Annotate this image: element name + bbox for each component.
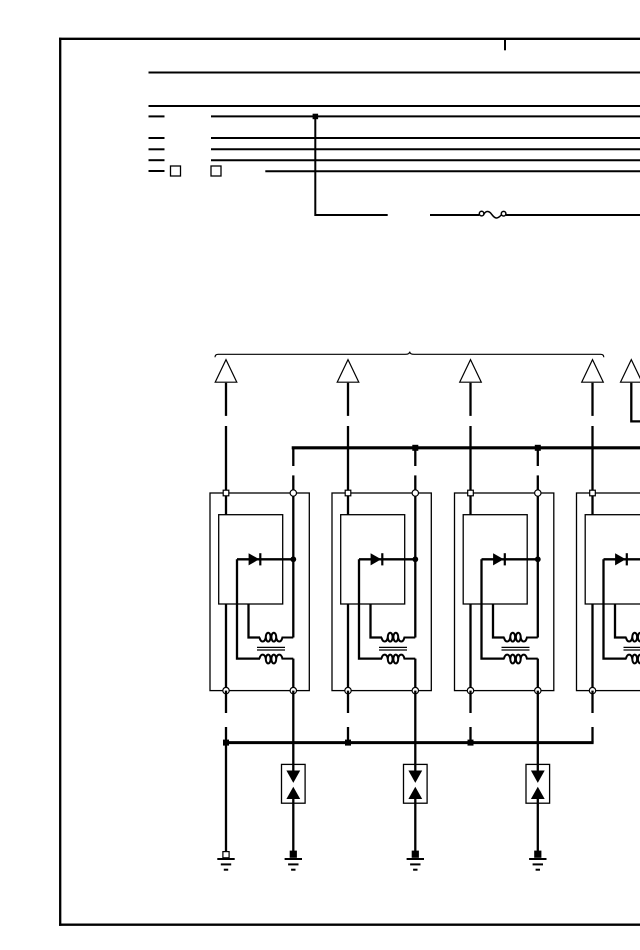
primary winding unit 2 xyxy=(382,633,416,642)
igniter unit 1 xyxy=(219,515,283,604)
diode D3 xyxy=(482,553,538,565)
pin unit 3 terminal 2 xyxy=(535,490,541,496)
wire pin4 to spark plug 3 xyxy=(537,691,539,771)
wire arrow 4 upper segment xyxy=(591,383,593,416)
wire unit 3 secondary to pin4 xyxy=(537,659,539,691)
inductor noise suppressor coil xyxy=(479,211,506,218)
igniter unit 4 xyxy=(585,515,640,604)
wire unit 1 pin2 down xyxy=(292,493,294,638)
pin unit 1 terminal 4 xyxy=(290,687,296,693)
secondary winding unit 1 xyxy=(260,655,294,664)
connector arrow 2 xyxy=(337,360,359,383)
secondary winding unit 2 xyxy=(382,655,416,664)
primary winding unit 4 xyxy=(626,633,640,642)
transformer core unit 3 xyxy=(502,647,530,650)
wire unit 2 pin1 to igniter xyxy=(347,493,349,515)
pin unit 1 terminal 2 xyxy=(290,490,296,496)
wire unit 1 pin1 to igniter xyxy=(225,493,227,515)
wire bus left drop lower xyxy=(292,475,294,493)
wire bus drop 1 lower xyxy=(414,475,416,493)
wire drop from row 3 xyxy=(315,116,387,215)
ground G4 xyxy=(529,851,546,870)
spark plug 3 xyxy=(526,764,550,803)
wire row 7 stub xyxy=(149,170,165,172)
spark plug 2 xyxy=(404,764,428,803)
node row3 junction xyxy=(313,114,319,120)
connector arrow 1 xyxy=(215,360,237,383)
wire arrow 3 lower segment xyxy=(469,426,471,493)
ground G1 xyxy=(217,859,234,870)
pin unit 3 terminal 3 xyxy=(467,687,473,693)
wire unit 3 igniter to pin3 xyxy=(469,604,471,691)
brace (harness group) xyxy=(215,352,604,358)
wire unit 1 secondary to pin4 xyxy=(292,659,294,691)
connector arrow 4 xyxy=(582,360,604,383)
node bus junction 2 xyxy=(535,445,541,451)
wire unit 2 pin3 drop lower xyxy=(347,727,349,743)
wire arrow 1 lower segment xyxy=(225,426,227,493)
wire spark plug 1 to ground xyxy=(292,799,294,854)
wire bus drop 1 upper xyxy=(414,448,416,466)
wire unit 4 pin1 to igniter xyxy=(591,493,593,515)
pin unit 3 terminal 4 xyxy=(535,687,541,693)
connector C1 xyxy=(171,166,181,176)
pin unit 1 terminal 3 xyxy=(223,687,229,693)
connector arrow 3 xyxy=(460,360,482,383)
igniter unit 2 xyxy=(341,515,405,604)
wire unit 1 diode anode to secondary xyxy=(237,559,260,658)
wire unit 2 pin3 drop upper xyxy=(347,691,349,713)
wire unit 3 pin3 drop upper xyxy=(469,691,471,713)
primary winding unit 3 xyxy=(504,633,538,642)
wire arrow 1 upper segment xyxy=(225,383,227,416)
wire unit 4 diode anode to secondary xyxy=(604,559,627,658)
wire unit 2 igniter to primary xyxy=(371,604,383,638)
pin unit 1 terminal 1 xyxy=(223,490,229,496)
wire row 4 stub xyxy=(149,137,165,139)
wire bus drop 2 upper xyxy=(537,448,539,466)
wire from noise suppressor xyxy=(506,214,640,216)
secondary winding unit 3 xyxy=(504,655,538,664)
pin unit 4 terminal 1 xyxy=(590,490,596,496)
wire pin4 to spark plug 1 xyxy=(292,691,294,771)
wire to noise suppressor xyxy=(430,214,479,216)
diode D1 xyxy=(237,553,293,565)
wire row 2 xyxy=(149,105,640,107)
ignition coil unit 3 case xyxy=(455,493,554,691)
node unit 1 diode-cathode junction xyxy=(290,556,296,562)
pin unit 2 terminal 4 xyxy=(412,687,418,693)
transformer core unit 4 xyxy=(624,647,640,650)
node unit 3 diode-cathode junction xyxy=(535,556,541,562)
wire arrow 2 lower segment xyxy=(347,426,349,493)
wire row 5 xyxy=(211,148,640,150)
wire unit 3 pin1 to igniter xyxy=(469,493,471,515)
wire bus drop 2 lower xyxy=(537,475,539,493)
ignition coil unit 1 case xyxy=(210,493,309,691)
wire unit 2 pin2 down xyxy=(414,493,416,638)
wire unit 3 pin3 drop lower xyxy=(469,727,471,743)
wire unit 1 pin3 drop upper xyxy=(225,691,227,713)
wire bus left drop xyxy=(292,448,294,466)
pin ground terminal xyxy=(223,852,229,858)
transformer core unit 2 xyxy=(379,647,407,650)
wire arrow 5 to right edge xyxy=(631,383,640,422)
node bus junction 1 xyxy=(412,445,418,451)
pin unit 3 terminal 1 xyxy=(468,490,474,496)
diode D4 xyxy=(604,553,640,565)
ground G2 xyxy=(285,851,302,870)
connector C2 xyxy=(211,166,221,176)
wire spark plug 2 to ground xyxy=(414,799,416,854)
wire ground bus xyxy=(226,741,594,744)
ignition coil unit 4 case xyxy=(577,493,640,691)
wire unit 4 igniter to primary xyxy=(615,604,627,638)
wire row 3 xyxy=(211,115,640,117)
node ground bus junction 2 xyxy=(345,740,351,746)
wire unit 3 igniter to primary xyxy=(493,604,505,638)
wire unit 4 pin3 drop lower xyxy=(591,727,593,743)
pin unit 2 terminal 2 xyxy=(412,490,418,496)
pin unit 2 terminal 3 xyxy=(345,687,351,693)
diode D2 xyxy=(359,553,415,565)
wire to ground G1 xyxy=(225,743,227,852)
ignition coil unit 2 case xyxy=(332,493,431,691)
wire distribution bus xyxy=(292,446,640,449)
node ground bus junction 1 xyxy=(223,740,229,746)
wire unit 3 pin2 down xyxy=(537,493,539,638)
transformer core unit 1 xyxy=(257,647,285,650)
wire unit 2 secondary to pin4 xyxy=(414,659,416,691)
wire row 6 xyxy=(211,159,640,161)
pin unit 2 terminal 1 xyxy=(345,490,351,496)
primary winding unit 1 xyxy=(260,633,294,642)
pin unit 4 terminal 3 xyxy=(589,687,595,693)
wire pin4 to spark plug 2 xyxy=(414,691,416,771)
node ground bus junction 3 xyxy=(468,740,474,746)
igniter unit 3 xyxy=(463,515,527,604)
wire unit 2 igniter to pin3 xyxy=(347,604,349,691)
wire unit 1 pin3 drop lower xyxy=(225,727,227,743)
wire unit 2 diode anode to secondary xyxy=(359,559,382,658)
wire arrow 4 lower segment xyxy=(591,426,593,493)
wire row 1 (hot feed) xyxy=(149,72,640,74)
ground G3 xyxy=(407,851,424,870)
connector arrow 5 xyxy=(621,360,640,383)
wire row 4 xyxy=(211,137,640,139)
spark plug 1 xyxy=(282,764,306,803)
wire arrow 3 upper segment xyxy=(469,383,471,416)
wire spark plug 3 to ground xyxy=(537,799,539,854)
node unit 2 diode-cathode junction xyxy=(412,556,418,562)
secondary winding unit 4 xyxy=(626,655,640,664)
wire unit 4 pin3 drop upper xyxy=(591,691,593,713)
wire arrow 2 upper segment xyxy=(347,383,349,416)
wire unit 1 igniter to pin3 xyxy=(225,604,227,691)
wire row 3 stub xyxy=(149,115,165,117)
wire unit 4 igniter to pin3 xyxy=(591,604,593,691)
wire row 7 xyxy=(265,170,640,172)
wire row 5 stub xyxy=(149,148,165,150)
wire unit 1 igniter to primary xyxy=(249,604,261,638)
wire row 6 stub xyxy=(149,159,165,161)
wire unit 3 diode anode to secondary xyxy=(482,559,505,658)
